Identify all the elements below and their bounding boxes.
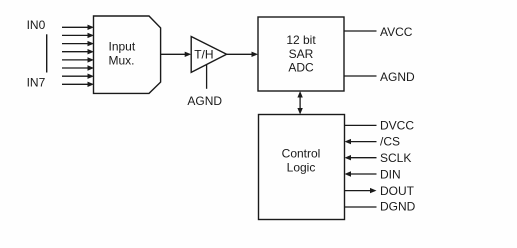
- wire analog input 1 to mux: [62, 33, 94, 38]
- svg-text:AGND: AGND: [187, 94, 222, 108]
- svg-text:DVCC: DVCC: [380, 119, 414, 133]
- svg-text:ADC: ADC: [288, 61, 314, 75]
- svg-text:Control: Control: [282, 147, 321, 161]
- pin DOUT output arrow: [345, 188, 377, 193]
- pin SCLK input arrow: [345, 155, 377, 160]
- wire mux output to T/H: [161, 52, 192, 57]
- wire analog input 4 to mux: [62, 57, 94, 62]
- svg-text:Logic: Logic: [287, 161, 316, 175]
- svg-text:/CS: /CS: [380, 135, 400, 149]
- pin DIN input arrow: [345, 171, 377, 176]
- op-amp T/H (track and hold): [191, 37, 226, 73]
- pin AGND line: [344, 75, 377, 77]
- block Control Logic U3: [259, 115, 345, 220]
- pin DGND line: [345, 206, 377, 208]
- svg-text:Input: Input: [109, 40, 136, 54]
- wire T/H ground stub: [206, 65, 208, 89]
- svg-text:DOUT: DOUT: [380, 184, 415, 198]
- svg-text:AGND: AGND: [380, 70, 415, 84]
- wire analog input 3 to mux: [62, 49, 94, 54]
- svg-text:Mux.: Mux.: [109, 53, 135, 67]
- wire IN0-IN7 span line: [46, 34, 48, 72]
- pin /CS input arrow: [345, 139, 377, 144]
- block 12 bit SAR ADC U2: [258, 17, 344, 91]
- wire analog input 0 to mux: [62, 25, 94, 30]
- svg-text:IN0: IN0: [27, 18, 46, 32]
- svg-text:DIN: DIN: [380, 167, 401, 181]
- svg-text:IN7: IN7: [27, 76, 46, 90]
- svg-text:12 bit: 12 bit: [286, 33, 316, 47]
- svg-text:SAR: SAR: [289, 47, 314, 61]
- svg-text:DGND: DGND: [380, 199, 416, 213]
- svg-text:T/H: T/H: [194, 48, 213, 62]
- svg-text:AVCC: AVCC: [380, 25, 413, 39]
- wire analog input 5 to mux: [62, 65, 94, 70]
- wire analog input 2 to mux: [62, 41, 94, 46]
- wire T/H output to ADC: [227, 52, 258, 57]
- block Input Mux U1: [94, 16, 161, 93]
- wire ADC to Control Logic (bidirectional bus): [297, 91, 302, 115]
- wire analog input 6 to mux: [62, 74, 94, 79]
- svg-text:SCLK: SCLK: [380, 151, 411, 165]
- wire analog input 7 to mux: [62, 82, 94, 87]
- pin AVCC line: [344, 30, 377, 32]
- pin DVCC line: [345, 124, 377, 126]
